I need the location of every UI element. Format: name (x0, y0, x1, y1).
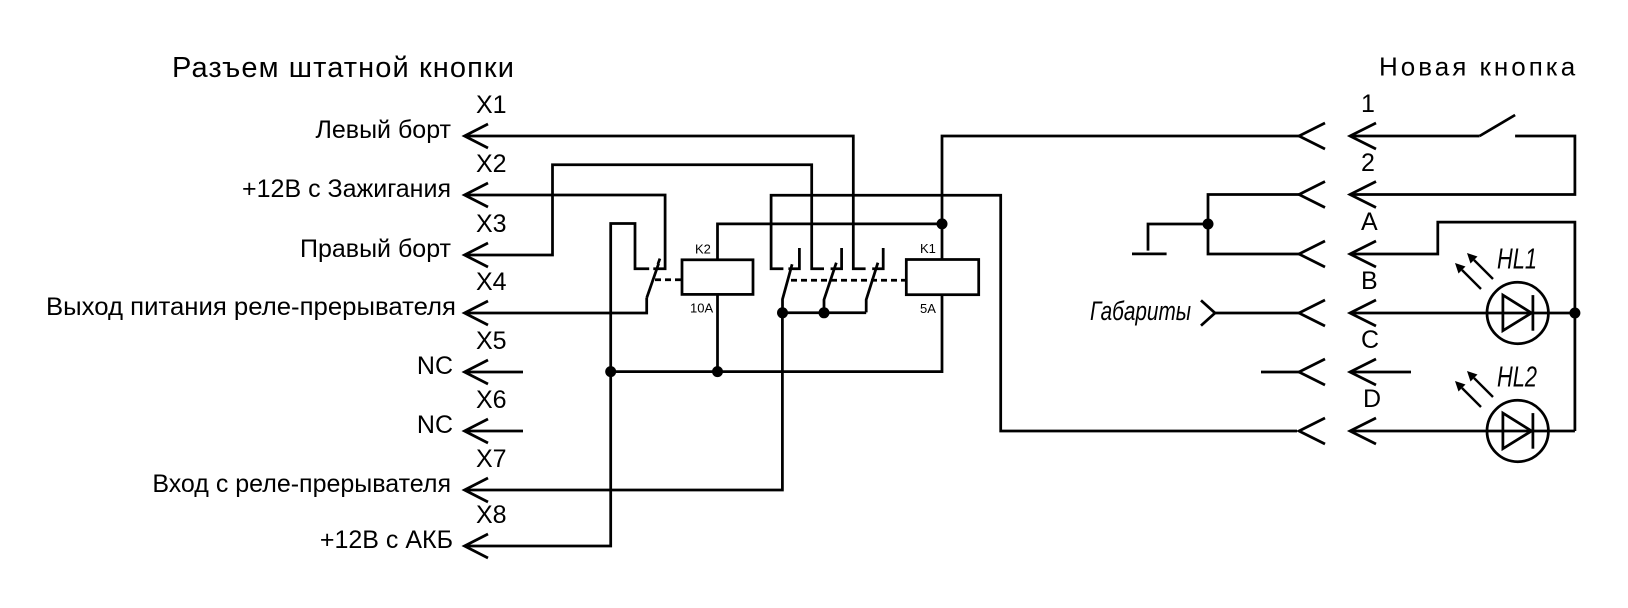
new button pin 1 arrows (1299, 123, 1376, 149)
svg-text:Левый борт: Левый борт (316, 116, 452, 144)
K1 contact 3 NO stub (872, 248, 883, 269)
K1 contact 3 lever (866, 263, 878, 313)
svg-text:2: 2 (1361, 149, 1375, 177)
K1 contact 2 lever (824, 263, 836, 313)
wire pin B to HL1 and cathode bus (1350, 312, 1575, 315)
LED HL2 circle (1487, 400, 1548, 461)
junction node K2/K1 coil top (937, 218, 948, 229)
new button pin D arrows (1299, 418, 1376, 444)
pin X7 arrow (465, 478, 489, 502)
pin X8 arrow (465, 534, 489, 558)
wire X3 (Правый борт) to K1 contact 2 fixed terminal (465, 165, 825, 269)
K1 contact 1 fixed terminal and wire to pin D feed (771, 195, 1297, 431)
svg-text:K2: K2 (695, 241, 711, 256)
new button pin 2 arrows (1299, 182, 1376, 208)
svg-text:HL2: HL2 (1497, 362, 1537, 394)
junction node LED cathode bus (1569, 308, 1580, 319)
chassis ground bar (1132, 253, 1167, 256)
svg-text:Новая кнопка: Новая кнопка (1379, 52, 1578, 82)
wire pin C stub left (1261, 371, 1299, 374)
LED HL1 light arrow 2 (1474, 260, 1493, 279)
svg-text:Выход питания реле-прерывателя: Выход питания реле-прерывателя (46, 293, 456, 321)
LED HL1 circle (1487, 282, 1548, 343)
Габариты source arrow (1201, 300, 1215, 325)
wire junction to chassis ground (1148, 224, 1208, 251)
wire pin A to LED cathode bus (1350, 222, 1575, 431)
svg-text:X6: X6 (476, 386, 507, 414)
LED HL2 diode triangle (1503, 413, 1532, 449)
svg-text:X8: X8 (476, 501, 507, 529)
svg-text:K1: K1 (920, 241, 936, 256)
svg-text:HL1: HL1 (1497, 244, 1537, 276)
K1 contact 1 lever (783, 264, 793, 313)
wire K1 contact common bus (783, 311, 867, 314)
junction node bus/K2 coil bottom (712, 366, 723, 377)
new button pin A arrows (1299, 241, 1376, 267)
wire X6 stub (NC) (465, 430, 524, 433)
wire Габариты to pin B (1215, 312, 1299, 315)
wire X5 stub (NC) (465, 371, 524, 374)
svg-text:D: D (1363, 385, 1381, 413)
pin X1 arrow (465, 124, 489, 148)
svg-text:Разъем штатной кнопки: Разъем штатной кнопки (172, 52, 515, 84)
pin X5 arrow (465, 360, 489, 384)
wire pin D to HL2 and cathode bus (1350, 430, 1575, 433)
wire switch to pin 2 (1350, 136, 1575, 195)
wire K2 coil top to node at (942,224) (718, 224, 943, 260)
relay K1 coil box (906, 260, 978, 295)
new button pin C arrows (1299, 359, 1376, 385)
svg-text:B: B (1361, 267, 1378, 295)
button switch lever (1480, 115, 1516, 136)
junction node pins 2/A/chassis (1203, 219, 1214, 230)
svg-text:10A: 10A (690, 301, 713, 316)
LED HL1 light arrow 1 (1462, 270, 1481, 289)
pin X2 arrow (465, 183, 489, 207)
svg-text:Габариты: Габариты (1090, 296, 1191, 326)
wire X7 (Вход с реле-прерывателя) to K1 contact common (465, 313, 783, 490)
K2 dashed link lever to coil (655, 278, 682, 281)
wire X8 (+12В с АКБ) to K2 fixed contact left (bent terminal) (465, 224, 650, 547)
junction node bus/X8 riser (605, 366, 616, 377)
wire pin 1 to button switch (1350, 135, 1480, 138)
svg-text:NC: NC (417, 411, 453, 439)
LED HL2 cathode bar (1532, 413, 1535, 449)
LED HL1 diode triangle (1503, 295, 1532, 331)
wire K1 coil top to pin 1 of new button (942, 136, 1299, 260)
relay K2 coil box (682, 260, 753, 295)
svg-text:A: A (1361, 208, 1378, 236)
svg-text:1: 1 (1361, 90, 1375, 118)
svg-text:Правый борт: Правый борт (300, 235, 452, 263)
junction node K1 contact common 1 (777, 307, 788, 318)
svg-text:X5: X5 (476, 327, 507, 355)
wire X4 (Выход питания реле-прерывателя) to K2 contact lever (465, 298, 647, 313)
K1 dashed link levers to coil (791, 279, 906, 282)
svg-text:X4: X4 (476, 268, 507, 296)
K1 contact 1 NO stub (788, 248, 799, 269)
wire pin C stub right (1350, 371, 1411, 374)
svg-text:Вход с реле-прерывателя: Вход с реле-прерывателя (152, 470, 451, 498)
svg-text:5A: 5A (920, 301, 936, 316)
svg-text:X3: X3 (476, 210, 507, 238)
LED HL2 light arrow 2 (1474, 378, 1493, 397)
svg-text:X2: X2 (476, 150, 507, 178)
wire bottom bus to K1 coil bottom (611, 295, 942, 372)
new button pin B arrows (1299, 300, 1376, 326)
wire K2 coil bottom to bottom bus (716, 294, 719, 371)
K2 contact lever (647, 259, 660, 298)
junction node K1 contact common 2 (819, 307, 830, 318)
wire X1 (Левый борт) to K1 contact 3 fixed terminal (465, 136, 866, 269)
K1 contact 2 NO stub (831, 248, 842, 269)
wire X2 (+12В с Зажигания) to K2 fixed contact right (465, 195, 666, 269)
svg-text:X1: X1 (476, 91, 507, 119)
svg-text:NC: NC (417, 352, 453, 380)
svg-text:X7: X7 (476, 445, 507, 473)
svg-text:+12В с Зажигания: +12В с Зажигания (242, 175, 451, 203)
pin X3 arrow (465, 243, 489, 267)
LED HL1 cathode bar (1532, 295, 1535, 331)
svg-text:+12В с АКБ: +12В с АКБ (320, 526, 453, 554)
wire pin 2 to pin A junction (1208, 195, 1299, 255)
pin X6 arrow (465, 419, 489, 443)
LED HL2 light arrow 1 (1462, 388, 1481, 407)
svg-text:C: C (1361, 326, 1379, 354)
pin X4 arrow (465, 301, 489, 325)
